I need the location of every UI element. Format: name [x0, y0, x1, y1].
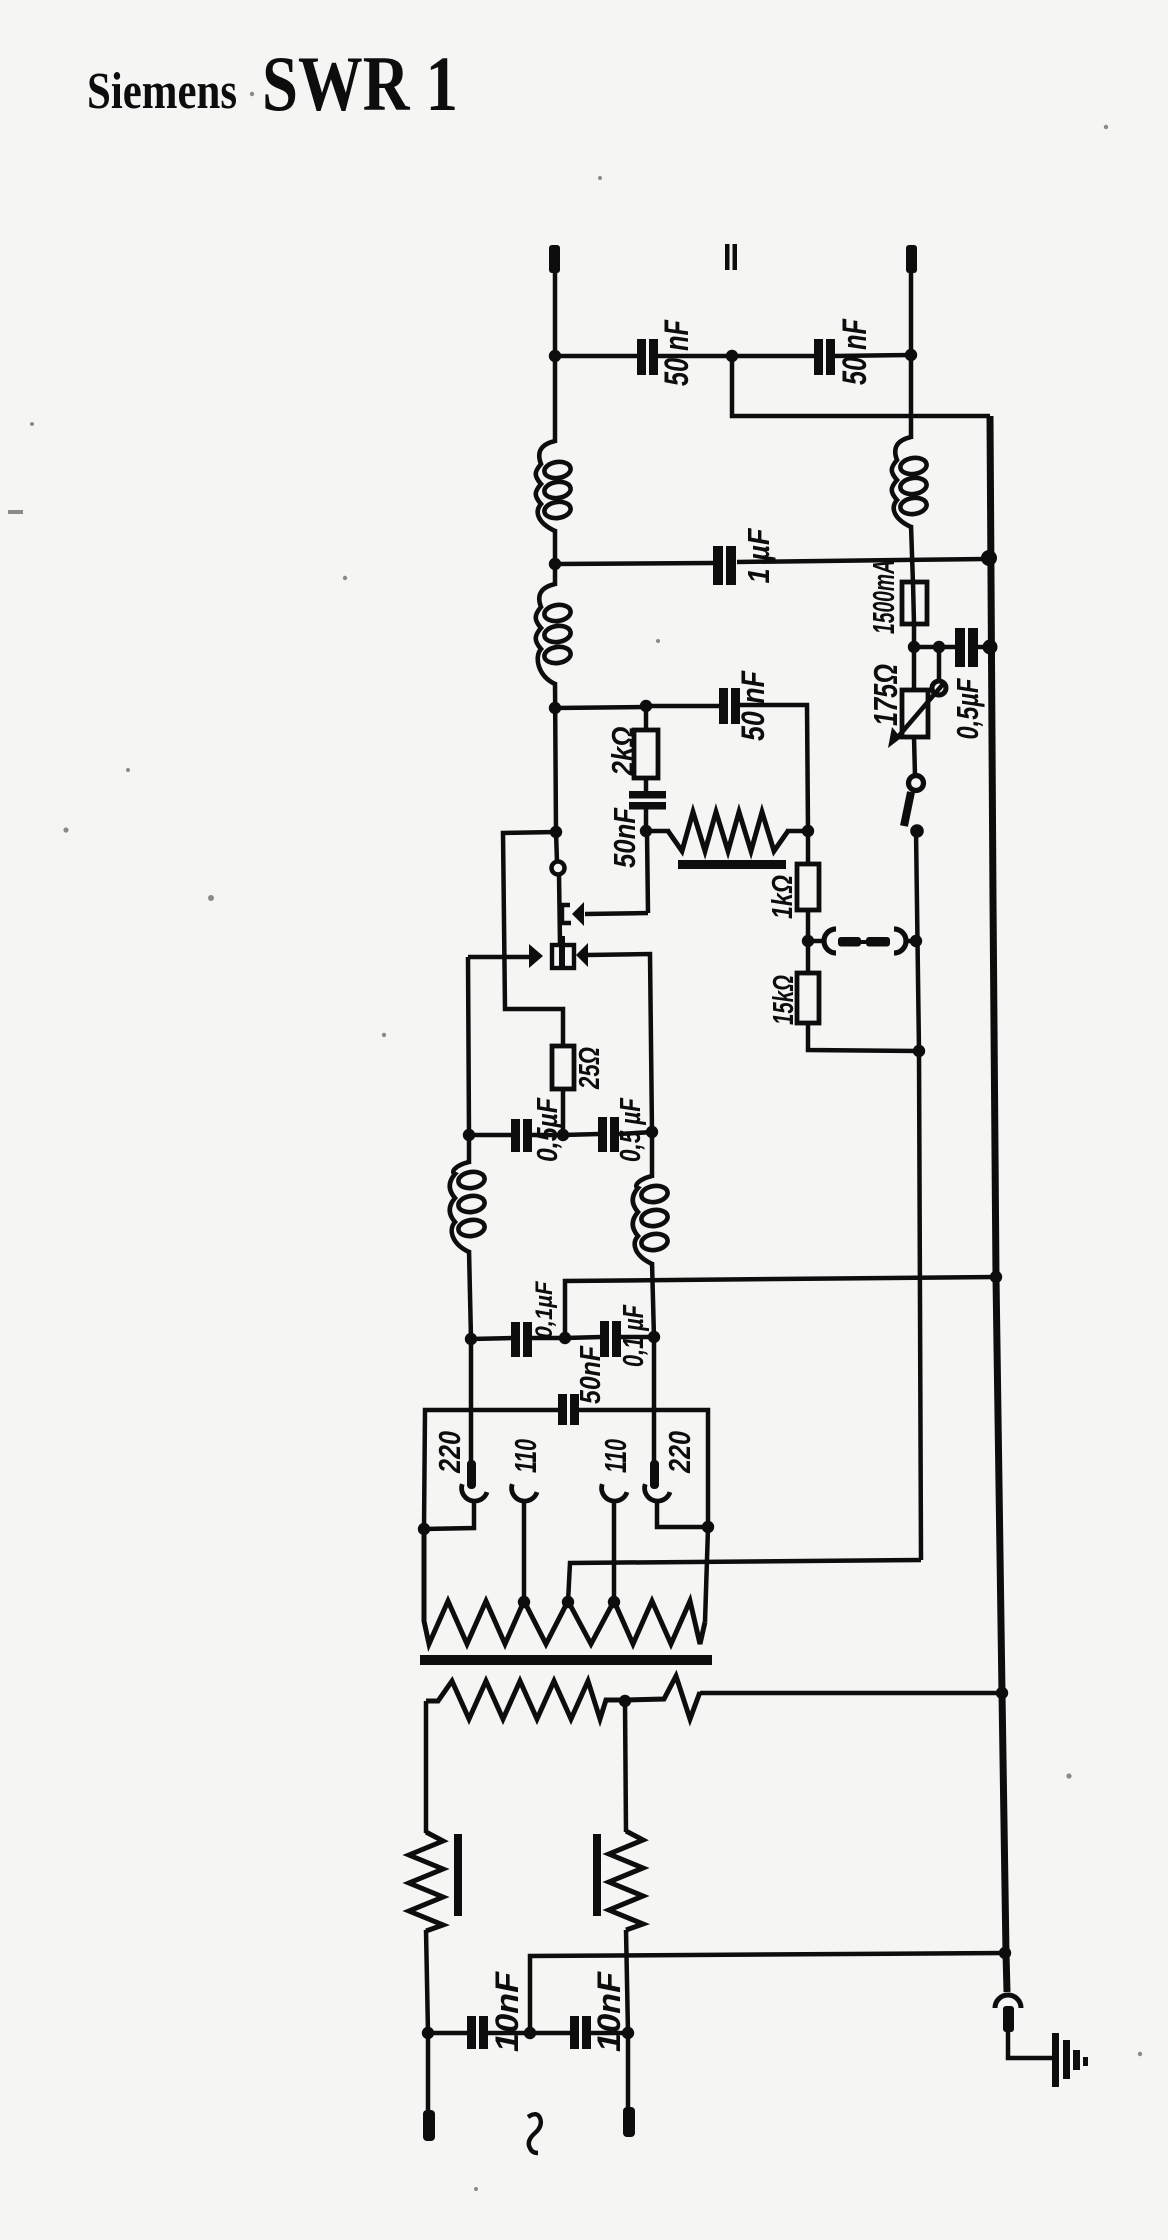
- junction row2 mid: [559, 1332, 571, 1344]
- resistor R4 1k Ohm: [797, 864, 819, 910]
- junction C4/bus: [983, 640, 998, 655]
- detector D2 left arrow: [529, 944, 543, 968]
- junction row2 right: [648, 1331, 660, 1343]
- svg-text:110: 110: [598, 1439, 633, 1473]
- wire C3 to bus: [737, 559, 986, 562]
- coil L6 tapped winding (zigzag): [424, 1529, 705, 1644]
- svg-text:50nF: 50nF: [575, 1345, 607, 1404]
- svg-text:10nF: 10nF: [489, 1970, 525, 2052]
- wire C2 to D1: [835, 355, 911, 356]
- capacitor C5 50nF plates: [719, 688, 728, 724]
- capacitor C10 0,1 uF plates: [600, 1321, 609, 1357]
- junction node D1: [905, 349, 917, 361]
- junction node B1: [726, 350, 738, 362]
- svg-text:15kΩ: 15kΩ: [768, 975, 800, 1025]
- headphone connector dashes: [838, 937, 861, 947]
- capacitor C7 0,5uF plates: [511, 1119, 520, 1152]
- svg-text:0,5µF: 0,5µF: [950, 678, 985, 740]
- junction tap c: [562, 1596, 574, 1608]
- socket 110 b: [598, 1484, 627, 1504]
- svg-text:50nF: 50nF: [607, 807, 642, 868]
- wire L1 to node A2: [553, 529, 558, 586]
- wire C9 to row2 mid: [532, 1336, 566, 1341]
- coil L7 winding (zigzag): [426, 1681, 625, 1719]
- socket 220 left: [458, 1484, 487, 1504]
- wire D1 arrow to riser: [585, 913, 648, 914]
- wire C13 to node M2: [591, 2031, 628, 2036]
- detector D2 crystal box: [552, 945, 574, 968]
- ground symbol: [1052, 2033, 1059, 2087]
- wire J down to R5: [806, 941, 811, 975]
- svg-text:1kΩ: 1kΩ: [767, 875, 799, 919]
- earth plug pin: [1003, 2006, 1014, 2032]
- wire row2 mid up and right to bus: [565, 1277, 996, 1338]
- capacitor C6 50nF plates (horizontal): [629, 791, 666, 799]
- junction node A4: [550, 826, 562, 838]
- headphone connector left socket arc: [824, 929, 836, 953]
- mark II (schematic sheet mark): [725, 244, 730, 270]
- coil L9 (vertical zigzag): [409, 1832, 443, 1931]
- junction L8/bus: [996, 1687, 1008, 1699]
- wire row2 left down to plug 220: [469, 1339, 474, 1463]
- core bar of L10: [593, 1834, 601, 1916]
- junction node A3: [549, 702, 561, 714]
- wire F down to R2: [644, 706, 649, 731]
- junction tap b: [608, 1596, 620, 1608]
- switch S1 contact circle: [909, 776, 924, 791]
- wire P2 down to node D1: [909, 270, 914, 355]
- capacitor C2 50nF plates: [814, 339, 823, 375]
- junction plugrow right: [702, 1521, 714, 1533]
- capacitor C11 50nF plates: [558, 1394, 567, 1425]
- junction row1 right: [646, 1126, 658, 1138]
- wire mid to C10: [565, 1337, 601, 1338]
- junction node A1: [549, 350, 561, 362]
- coil L10 (vertical zigzag): [609, 1831, 643, 1930]
- wire L7 tap down line: [625, 1701, 626, 1832]
- core bar between windings: [420, 1655, 712, 1665]
- wire C7 to mid: [532, 1133, 564, 1138]
- svg-text:2kΩ: 2kΩ: [605, 727, 640, 777]
- core bar of L9: [454, 1834, 462, 1916]
- bar under R3 (electrode): [678, 860, 786, 869]
- svg-text:0,1µF: 0,1µF: [531, 1280, 558, 1338]
- wire C10 to row2 right: [621, 1335, 655, 1340]
- svg-text:220: 220: [662, 1431, 697, 1474]
- wire M1 to C12: [428, 2031, 468, 2036]
- wire C8 to row1 right: [619, 1132, 653, 1134]
- wire left arm to D2: [468, 955, 530, 960]
- capacitor C9 0,1uF plates: [511, 1322, 520, 1357]
- capacitor C8 0,5uF plates: [598, 1117, 607, 1152]
- svg-text:Siemens: Siemens: [87, 63, 237, 120]
- svg-text:175Ω: 175Ω: [867, 664, 904, 726]
- wiper contact circle: [932, 681, 946, 695]
- coil L5: [633, 1176, 652, 1264]
- junction row1 left: [463, 1129, 475, 1141]
- capacitor C12 10nF plates: [467, 2016, 476, 2049]
- wire P1 down to node A1: [553, 270, 558, 356]
- detector D1 arrow: [572, 902, 584, 926]
- svg-text:1500mA: 1500mA: [866, 560, 901, 634]
- wire mid to C8: [563, 1134, 599, 1135]
- wire A1 to C1: [555, 354, 638, 359]
- wire A4 down to grid cap circle: [556, 832, 557, 862]
- wire L5 to row2 right: [652, 1262, 654, 1338]
- wire R5 down and right to long line: [808, 1023, 919, 1051]
- junction row1 mid: [557, 1129, 569, 1141]
- wire R4 to node J: [806, 910, 811, 942]
- wire socket 110b to tap: [612, 1503, 617, 1602]
- wire R6 down to row: [561, 1089, 566, 1136]
- wire row2 right down to plug 220: [652, 1337, 657, 1463]
- wire L10 down to node M2: [626, 1930, 628, 2033]
- wire S1 down the long right line: [916, 831, 921, 1560]
- wire socket 220 left to node: [424, 1503, 474, 1529]
- wire A4 bypass left leg: [503, 832, 563, 1048]
- wire M3 to C13: [530, 2031, 571, 2036]
- terminal P3: [423, 2110, 435, 2141]
- wire row1 left down to coil L4: [467, 1135, 472, 1164]
- junction node A2: [549, 558, 561, 570]
- wire F to C5: [646, 704, 720, 709]
- junction L7 / down line: [619, 1695, 631, 1707]
- junction node on bus (big): [981, 550, 997, 566]
- earth socket arc: [995, 1995, 1021, 2008]
- wire E1 to C4: [914, 645, 957, 650]
- wire 50nF row left: [424, 1410, 559, 1529]
- wire connector right to K: [905, 939, 918, 944]
- junction node G: [802, 825, 814, 837]
- wire L3 to fuse F1: [911, 525, 913, 584]
- junction node E2 (wiper tap): [933, 641, 945, 653]
- junction row2 left: [465, 1333, 477, 1345]
- terminal P4: [623, 2107, 635, 2137]
- socket 110 a: [508, 1484, 537, 1504]
- capacitor C13 10nF plates: [570, 2016, 579, 2049]
- wire pin to ground: [1008, 2031, 1054, 2058]
- coil L2: [536, 584, 555, 684]
- junction node F: [640, 700, 652, 712]
- wire R3 to node G: [786, 829, 809, 834]
- terminal post P2: [906, 245, 917, 273]
- svg-text:0,5µF: 0,5µF: [532, 1097, 564, 1162]
- svg-text:50 nF: 50 nF: [658, 319, 696, 386]
- wire left arm down to 0,5uF row: [468, 957, 469, 1135]
- wire E2 down to wiper contact: [937, 647, 942, 682]
- coil L3: [892, 437, 911, 527]
- svg-text:50 nF: 50 nF: [836, 318, 874, 385]
- contact circle: [552, 862, 565, 875]
- resistor R6 25 Ohm: [552, 1046, 574, 1089]
- detector D1 bracket: [562, 905, 571, 923]
- wire M2 down to terminal P4: [626, 2033, 631, 2109]
- resistor R3 (zigzag): [668, 812, 788, 851]
- potentiometer R1 wiper arrow: [897, 683, 944, 738]
- junction row2/bus: [990, 1271, 1002, 1283]
- resistor R2 2k Ohm: [634, 730, 658, 778]
- coil L1: [536, 441, 555, 531]
- wire H to R3: [646, 829, 670, 834]
- junction node S1 bottom: [910, 824, 924, 838]
- wire L4 to row2 left: [469, 1250, 471, 1339]
- wire long line down-left to coil tap: [568, 1560, 921, 1602]
- junction node on long line: [913, 1045, 925, 1057]
- wire L8 to bus: [700, 1691, 1002, 1696]
- wire C4 to bus: [977, 645, 990, 650]
- junction node H: [640, 825, 652, 837]
- switch S1 blade: [904, 792, 911, 826]
- junction plugrow left: [418, 1523, 430, 1535]
- plug pin 220 right: [650, 1460, 659, 1489]
- plug pin 220 left: [467, 1460, 476, 1489]
- wire M3 up and right to bus: [530, 1953, 1005, 2033]
- terminal antenna post P1: [549, 245, 560, 273]
- coil L4: [450, 1162, 469, 1252]
- svg-text:0,5 µF: 0,5 µF: [615, 1097, 647, 1162]
- wire A2 to C3: [555, 563, 714, 564]
- wire row1 left to C7: [469, 1133, 512, 1138]
- junction node J: [802, 935, 814, 947]
- wire A1 down to coil L1: [553, 356, 558, 443]
- svg-text:SWR 1: SWR 1: [262, 40, 458, 127]
- wire D2 right arm down: [587, 954, 652, 1132]
- wire C5 right and down to node G: [740, 705, 808, 831]
- junction wire/bus: [999, 1947, 1011, 1959]
- detector D2 right arrow: [576, 943, 588, 967]
- wire C12 to mid: [488, 2031, 531, 2036]
- svg-text:110: 110: [508, 1439, 543, 1473]
- junction node M3: [524, 2027, 536, 2039]
- wire socket 110a to tap: [522, 1503, 527, 1602]
- wire main ground bus (right side): [990, 416, 1007, 1992]
- wire 50nF row right: [579, 1410, 708, 1528]
- wire row1 right down to coil L5: [650, 1132, 655, 1178]
- socket 220 right: [641, 1484, 670, 1504]
- fuse F1 1500mA: [902, 582, 927, 624]
- junction node M1: [422, 2027, 434, 2039]
- wire D1 down to coil L3: [909, 355, 914, 439]
- coil L8 small winding (zigzag): [625, 1676, 700, 1719]
- wire J to connector left: [808, 939, 824, 944]
- junction tap a: [518, 1596, 530, 1608]
- svg-text:220: 220: [432, 1431, 467, 1474]
- headphone connector right socket arc: [894, 929, 906, 953]
- wire F1 to node E1: [912, 624, 917, 648]
- wire socket 220 right to node: [657, 1503, 708, 1527]
- wire L2 to node A4: [555, 682, 556, 832]
- wire B1 down and right to bus top: [732, 356, 990, 416]
- potentiometer R1 175 Ohm body: [912, 647, 917, 690]
- capacitor C4 0,5uF plates: [955, 628, 965, 667]
- capacitor C3 1uF plates: [713, 546, 723, 585]
- wire row2 left to C9: [471, 1338, 512, 1339]
- wire L6 right end up: [705, 1528, 708, 1622]
- wire C6 to node H: [644, 809, 649, 832]
- wire R2 to C6: [644, 778, 649, 793]
- wire circle to detector D1: [559, 874, 560, 944]
- resistor R5 15k Ohm: [797, 973, 819, 1023]
- wire riser up to node H: [647, 832, 648, 913]
- wire R1 to switch S1: [914, 737, 915, 776]
- wire L9 down to node M1: [426, 1930, 428, 2033]
- wire L7 left end down: [424, 1701, 429, 1833]
- wire A3 to node F: [555, 707, 647, 708]
- svg-text:10nF: 10nF: [591, 1970, 627, 2052]
- svg-text:25Ω: 25Ω: [574, 1047, 606, 1090]
- junction node M2: [622, 2027, 634, 2039]
- capacitor C1 50nF plates: [637, 339, 646, 375]
- antenna squiggle mark: [528, 2114, 541, 2153]
- junction node E1: [908, 641, 920, 653]
- wire M1 down to terminal P3: [426, 2033, 431, 2112]
- wire G down to R4: [806, 831, 811, 866]
- svg-text:1 µF: 1 µF: [741, 528, 776, 584]
- junction node K: [910, 935, 922, 947]
- detector D2 center electrode: [559, 936, 565, 968]
- wire C1 to C2: [658, 354, 815, 359]
